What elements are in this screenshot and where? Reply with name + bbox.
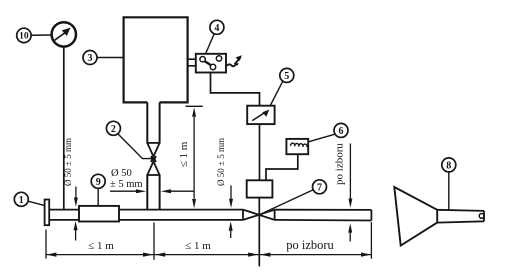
svg-text:po izboru: po izboru — [334, 143, 346, 185]
svg-text:2: 2 — [111, 124, 116, 135]
leader wire balloon10 to gauge — [31, 34, 51, 36]
nozzle cone left (item 7 area) — [243, 210, 262, 220]
wires tank to valve block ports — [188, 59, 196, 66]
balloon 1 — [14, 192, 28, 206]
wire junction box through nozzle to dimension line — [258, 198, 260, 267]
svg-text:Ø 50 ± 5 mm: Ø 50 ± 5 mm — [63, 138, 73, 186]
balloon 4 — [210, 20, 224, 34]
horn inlet (item 8) — [394, 187, 484, 246]
annotation arrows pointing at venturi outlet pipe — [110, 189, 194, 193]
dimension vertical Ø50 right: arrows — [229, 186, 233, 239]
balloon 10 — [17, 28, 31, 42]
svg-text:± 5 mm: ± 5 mm — [110, 179, 143, 190]
balloon 2 — [106, 121, 120, 135]
wire sensor down and left to junction box — [266, 154, 298, 180]
main pipe right section — [275, 210, 372, 221]
pressure gauge PI (item 10) — [52, 22, 76, 46]
leader wire balloon1 to flange — [28, 201, 44, 205]
heater sensor (item 6) — [286, 139, 308, 154]
orifice flange (item 1) — [45, 200, 50, 226]
svg-text:Ø 50: Ø 50 — [111, 168, 132, 179]
muffler box (item 9) — [79, 206, 119, 222]
svg-text:7: 7 — [317, 182, 322, 193]
dimension line bottom with extension lines — [46, 222, 371, 260]
balloon 3 — [83, 51, 97, 65]
balloon 5 — [280, 68, 294, 82]
svg-text:4: 4 — [214, 23, 219, 34]
junction box above nozzle — [247, 180, 273, 197]
annotation Ø50 ±5mm at venturi outlet: text — [110, 168, 143, 190]
main pipe left section — [49, 210, 243, 220]
leader wire balloon4 to valve block — [206, 34, 215, 54]
nozzle cone right — [256, 210, 275, 220]
svg-text:8: 8 — [446, 160, 451, 171]
leader wire balloon8 to horn tube — [448, 172, 450, 210]
leader wire balloon3 to tank — [97, 57, 123, 59]
svg-text:≤ 1 m: ≤ 1 m — [178, 141, 190, 167]
venturi nozzle (item 2) — [146, 143, 160, 175]
tank (item 3) — [124, 17, 188, 102]
leader wire balloon9 to muffler — [97, 188, 99, 205]
leader wire balloon2 to venturi throat — [118, 134, 152, 159]
balloon 6 — [334, 123, 348, 137]
leader wire balloon7 to nozzle point — [262, 190, 314, 214]
wire regulator down to junction box — [259, 124, 261, 180]
svg-text:6: 6 — [339, 126, 344, 137]
leader wire balloon6 to sensor — [308, 134, 335, 142]
svg-text:po izboru: po izboru — [286, 238, 334, 252]
wire gauge down to pipe — [63, 47, 65, 210]
svg-text:1: 1 — [19, 195, 24, 206]
venturi outlet pipe down to main pipe — [147, 175, 159, 210]
dimension vertical Ø50 left: arrows — [74, 187, 78, 241]
tank neck down to venturi — [147, 102, 159, 143]
balloon 9 — [91, 174, 105, 188]
regulator with arrow (item 5) — [247, 106, 274, 124]
svg-text:≤ 1 m: ≤ 1 m — [88, 240, 114, 252]
balloon 7 — [313, 180, 327, 194]
balloon 8 — [442, 158, 456, 172]
dimension vertical po izboru: arrows — [348, 144, 352, 242]
svg-text:9: 9 — [96, 177, 101, 188]
dimension vertical ≤1m: line and arrows — [186, 106, 203, 208]
vent squiggle arrow at valve block — [227, 55, 242, 66]
valve block (item 4) — [196, 54, 226, 73]
svg-text:10: 10 — [19, 32, 29, 42]
svg-text:≤ 1 m: ≤ 1 m — [185, 240, 211, 252]
wire valve block to regulator — [211, 73, 260, 106]
svg-text:5: 5 — [284, 71, 289, 82]
svg-text:3: 3 — [88, 53, 93, 64]
svg-text:Ø 50 ± 5 mm: Ø 50 ± 5 mm — [216, 138, 226, 186]
leader wire balloon5 to regulator — [270, 81, 283, 105]
